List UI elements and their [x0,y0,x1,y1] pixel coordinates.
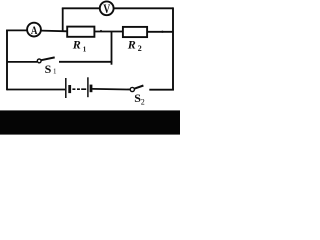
wire: battery to S2 [92,88,130,91]
battery cell 1 long plate [65,78,67,98]
junction tick near R1 right lead [100,30,102,32]
wire: voltmeter right lead [114,7,173,9]
wire: left rail vertical [6,30,8,90]
svg-text:2: 2 [138,44,142,53]
wire: ammeter to R1 [41,30,67,33]
resistor R2 label [127,37,142,53]
svg-text:R: R [72,37,81,51]
wire: right rail vertical [172,7,174,90]
junction dot on R2 right lead [161,31,163,33]
switch S2 pivot circle [130,87,134,91]
svg-text:V: V [103,2,110,16]
resistor R2 [123,27,147,37]
svg-text:A: A [31,23,38,37]
switch S1 blade [41,57,55,60]
wire: S1 row left segment [7,61,38,63]
wire: S2 to right rail [149,89,174,91]
battery dashed link [72,88,86,90]
voltmeter V1 [100,1,114,15]
wire: battery row left segment [7,89,66,91]
wire: R2 to right rail [147,31,173,33]
svg-text:1: 1 [83,45,87,53]
wire: R1 to R2 [94,31,123,33]
switch S1 pivot circle [37,59,41,63]
battery cell 2 short plate [90,85,93,93]
wire: top-left to ammeter [6,29,27,31]
battery cell 2 long plate [87,77,89,97]
resistor R1 label [72,37,87,53]
wire: voltmeter branch vertical [62,8,64,31]
wire: S1 row right segment [59,61,112,63]
resistor R1 [67,27,94,37]
svg-text:1: 1 [53,68,57,76]
svg-text:S: S [45,62,52,76]
switch S2 blade [134,86,143,89]
battery cell 1 short plate [68,85,71,93]
svg-text:2: 2 [141,97,145,106]
node: R1-R2 midpoint to S1 branch, wire vertical [111,32,113,65]
switch S1 label [45,62,57,76]
svg-text:R: R [127,37,136,51]
wire: voltmeter left lead [62,7,100,9]
ammeter A1 [27,23,41,37]
switch S2 label [134,91,145,107]
